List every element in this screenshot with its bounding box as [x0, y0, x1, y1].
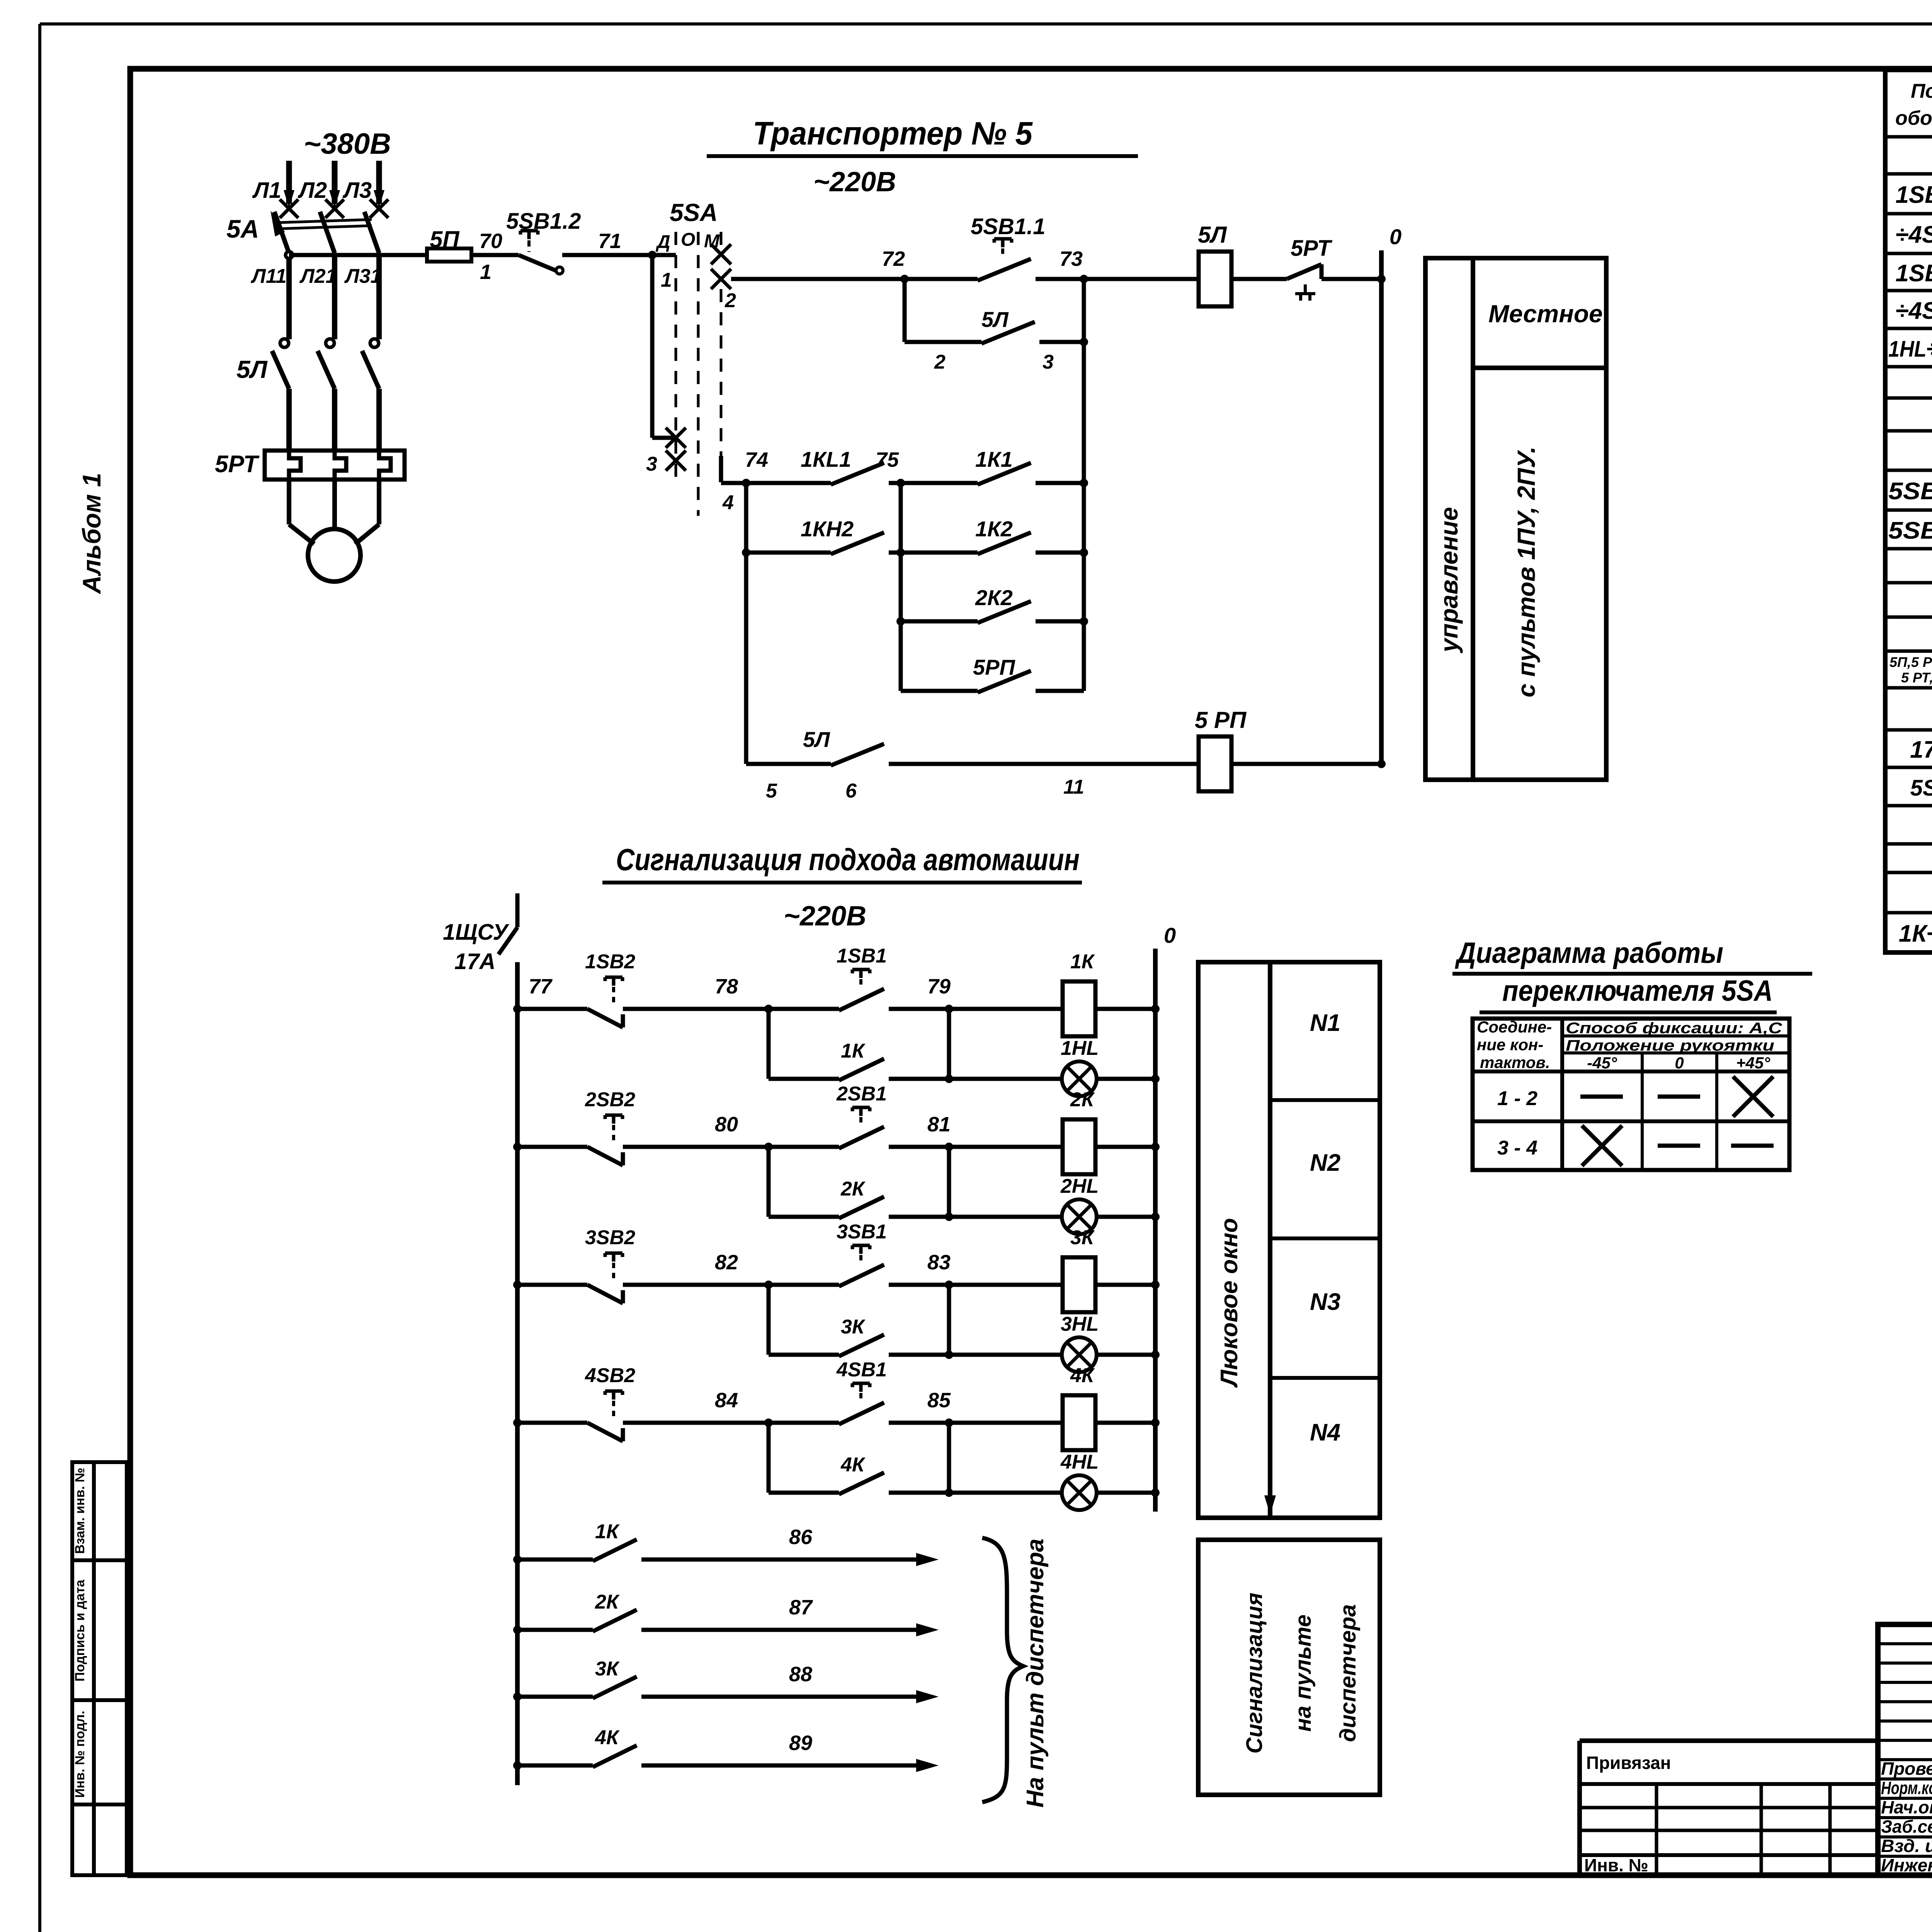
breaker 5A fixed contact X phase 2	[325, 199, 344, 218]
svg-text:Л3: Л3	[342, 178, 372, 203]
control-mode box divider horizontal	[1473, 366, 1606, 370]
svg-text:2К: 2К	[1070, 1088, 1095, 1111]
control-mode box divider vertical	[1471, 258, 1475, 780]
branch vertical to lamp 3	[947, 1285, 951, 1355]
section title underline	[602, 881, 1082, 884]
wire 75 to 1К1	[901, 481, 978, 485]
junction bus rung 2	[513, 1143, 522, 1151]
5SA position dashed lines Д О М	[675, 232, 677, 479]
wire 3SB2 to node 82	[623, 1283, 769, 1287]
branch vertical node 84	[767, 1423, 771, 1493]
wire contact 2К to lamp branch	[889, 1215, 949, 1219]
svg-text:Нач.отд.: Нач.отд.	[1881, 1797, 1932, 1817]
title block row line	[1878, 1719, 1932, 1723]
right collector vertical 73	[1082, 279, 1086, 691]
5SA М line top segment	[720, 232, 723, 246]
feeder stub from 1ЩСУ	[515, 893, 520, 927]
wire output 86 start	[517, 1558, 593, 1562]
wire node71 to Д line	[652, 253, 676, 257]
svg-text:5SB1.2: 5SB1.2	[1888, 517, 1932, 544]
junction to lamp branch 1	[945, 1005, 953, 1013]
motor circle M	[308, 529, 361, 582]
svg-text:4SB1: 4SB1	[836, 1359, 887, 1381]
svg-text:79: 79	[927, 975, 951, 998]
wire node to 1SB1	[769, 1007, 839, 1011]
contactor 5Л fixed contact phase 2	[326, 339, 334, 347]
table row line	[1885, 911, 1932, 915]
wire 2SB2 to node 80	[623, 1145, 769, 1149]
5SA М-line solid tail to rung	[719, 456, 723, 482]
5SA diagram table grid	[1473, 1019, 1789, 1170]
svg-text:0: 0	[1675, 1054, 1684, 1072]
left vertical 74 down	[744, 483, 748, 764]
svg-text:3SB1: 3SB1	[837, 1221, 887, 1243]
table row line	[1885, 172, 1932, 176]
wire output 86	[641, 1558, 923, 1562]
node 84 junction	[764, 1418, 773, 1427]
neutral bus 0 vertical	[1379, 250, 1384, 764]
middle vertical 75 down	[899, 483, 903, 691]
5SA contact X (3) upper	[666, 428, 686, 448]
wire coil 5РП to bus 0	[1231, 762, 1381, 766]
5SA feed to contact 3	[652, 436, 676, 440]
svg-text:диспетчера: диспетчера	[1335, 1604, 1361, 1742]
contactor 5Л blade phase 3	[362, 351, 379, 389]
svg-text:5 РТ,5Л: 5 РТ,5Л	[1901, 670, 1932, 685]
junction bus rung 3	[513, 1281, 522, 1289]
svg-text:N3: N3	[1310, 1289, 1340, 1315]
node 72 junction	[900, 275, 909, 283]
phase feeder L1 vertical	[286, 161, 292, 204]
svg-text:4К: 4К	[840, 1454, 866, 1476]
junction Row B right	[1080, 548, 1088, 557]
wire 1КЛ1 to node 75	[889, 481, 901, 485]
table row line	[1885, 327, 1932, 330]
wire 5РТ to neutral bus 0	[1321, 277, 1381, 281]
svg-text:1НL÷4НL: 1НL÷4НL	[1888, 337, 1932, 362]
breaker 5A fixed contact X phase 3	[370, 199, 388, 218]
node Л11 junction circle	[286, 252, 293, 259]
wire node to 3SB1	[769, 1283, 839, 1287]
phase L3 arrow tip	[374, 190, 384, 208]
junction Row B mid	[896, 548, 905, 557]
svg-text:с пультов 1ПУ, 2ПУ.: с пультов 1ПУ, 2ПУ.	[1512, 446, 1540, 697]
branch vertical node 80	[767, 1147, 771, 1217]
svg-text:Местное: Местное	[1488, 300, 1603, 328]
title block row line	[1878, 1758, 1932, 1761]
wire Л11 to fuse 5П	[289, 253, 427, 257]
stop button 4SB2 (NC)	[587, 1423, 623, 1441]
svg-text:Положение рукоятки: Положение рукоятки	[1566, 1037, 1774, 1054]
node 71 junction	[648, 251, 656, 259]
wire to 1КН2	[746, 551, 831, 555]
sheet outer border left	[38, 24, 41, 1932]
title block row line	[1878, 1777, 1932, 1781]
wire output 88 start	[517, 1695, 593, 1699]
title block row line	[1878, 1739, 1932, 1742]
bus junction rung 1	[1151, 1005, 1160, 1013]
arrow into lower box	[1264, 1495, 1276, 1515]
svg-text:84: 84	[715, 1389, 738, 1412]
node 75 junction	[896, 479, 905, 487]
start button 4SB1 (NO)	[839, 1403, 884, 1424]
bus junction lamp 4	[1151, 1488, 1160, 1497]
breaker 5A linkage bar (double line)	[279, 219, 372, 223]
svg-text:ние кон-: ние кон-	[1477, 1036, 1543, 1054]
wire rung 2 start	[517, 1145, 587, 1149]
svg-text:5SB1.1: 5SB1.1	[971, 214, 1045, 239]
svg-text:÷4SB2: ÷4SB2	[1895, 298, 1932, 324]
breaker 5A blade phase 3	[364, 212, 379, 253]
junction bus rung 4	[513, 1418, 522, 1427]
node 82 junction	[764, 1281, 773, 1289]
svg-text:N2: N2	[1310, 1150, 1340, 1176]
phase feeder L3 vertical	[376, 161, 382, 204]
svg-text:1КL1: 1КL1	[801, 447, 851, 471]
start button 2SB1 (NO)	[839, 1127, 884, 1148]
svg-text:5Л: 5Л	[981, 307, 1009, 332]
signal lamp 2НЛ	[1062, 1199, 1097, 1234]
svg-text:1К: 1К	[595, 1520, 620, 1543]
title block row line	[1878, 1797, 1932, 1800]
svg-text:85: 85	[927, 1389, 951, 1412]
wire contact 1К to lamp branch	[889, 1077, 949, 1081]
wire output 88	[641, 1695, 923, 1699]
svg-text:Л11: Л11	[250, 265, 287, 287]
wire coil 4К to bus 0	[1095, 1421, 1155, 1425]
svg-text:1: 1	[661, 269, 672, 291]
bus junction lamp 1	[1151, 1075, 1160, 1083]
svg-text:3К: 3К	[841, 1316, 866, 1338]
start button 5SB1.1 (NO with button head)	[978, 259, 1031, 281]
table row line	[1885, 686, 1932, 690]
branch vertical to lamp 4	[947, 1423, 951, 1493]
signal lamp 1НЛ	[1062, 1061, 1097, 1096]
wire 1SB1 to coil 1К	[889, 1007, 1063, 1011]
table row line	[1885, 871, 1932, 874]
title block row line	[1878, 1681, 1932, 1684]
svg-text:2SB2: 2SB2	[585, 1088, 635, 1111]
window cell divider 2	[1270, 1236, 1380, 1240]
bus junction output 88	[513, 1692, 522, 1701]
wire coil 2К to bus 0	[1095, 1145, 1155, 1149]
wire to lamp 4НЛ	[949, 1491, 1062, 1495]
wire contact 3К to lamp branch	[889, 1353, 949, 1357]
contactor 5Л blade phase 1	[272, 351, 289, 389]
phase L1 arrow tip	[284, 190, 294, 208]
svg-text:Л31: Л31	[344, 265, 382, 287]
table row line	[1885, 842, 1932, 846]
svg-text:82: 82	[715, 1251, 738, 1274]
title block row line	[1878, 1662, 1932, 1665]
wire 2К2 to collector	[1036, 619, 1084, 624]
svg-text:2: 2	[934, 351, 946, 373]
table row line	[1885, 581, 1932, 585]
branch vertical node 82	[767, 1285, 771, 1355]
junction to lamp branch 3	[945, 1281, 953, 1289]
svg-text:Сигнализация: Сигнализация	[1242, 1593, 1267, 1754]
svg-text:÷4SB1: ÷4SB1	[1895, 221, 1932, 248]
svg-text:Поз,: Поз,	[1911, 80, 1932, 102]
svg-text:1НL: 1НL	[1061, 1037, 1099, 1060]
long wire 11 to coil 5РП	[889, 762, 1199, 766]
coil 5Л (contactor coil)	[1199, 252, 1231, 306]
bus node bottom	[1377, 760, 1386, 768]
contactor 5Л fixed contact phase 3	[370, 339, 379, 347]
junction lamp branch 1	[945, 1075, 953, 1083]
svg-text:87: 87	[789, 1596, 813, 1619]
stop button 3SB2 (NC)	[587, 1285, 623, 1303]
wire lamp 4НЛ to bus 0	[1097, 1491, 1155, 1495]
junction Row C mid	[896, 617, 905, 626]
svg-text:11: 11	[1063, 776, 1084, 798]
svg-text:74: 74	[745, 448, 768, 471]
dash 3-4 0	[1658, 1144, 1700, 1148]
arrow to dispatcher 86	[916, 1553, 939, 1566]
table row line	[1885, 547, 1932, 551]
relay coil 4К	[1063, 1395, 1095, 1450]
svg-text:N1: N1	[1310, 1010, 1340, 1036]
wire coil 1К to bus 0	[1095, 1007, 1155, 1011]
svg-text:77: 77	[529, 975, 553, 998]
node 73 junction	[1080, 275, 1088, 283]
svg-text:Диаграмма работы: Диаграмма работы	[1455, 937, 1723, 969]
table row line	[1885, 289, 1932, 293]
wire button to node 73	[1036, 277, 1084, 281]
wire coil 5Л to 5РТ contact	[1231, 277, 1287, 281]
wire output 89	[641, 1764, 923, 1768]
svg-text:72: 72	[882, 247, 905, 270]
dash 3-4 +45	[1731, 1144, 1774, 1148]
svg-text:~220В: ~220В	[784, 901, 866, 932]
svg-text:3НL: 3НL	[1061, 1313, 1099, 1335]
bus junction output 87	[513, 1626, 522, 1634]
svg-text:88: 88	[789, 1663, 812, 1686]
svg-text:Д: Д	[655, 232, 670, 252]
svg-text:83: 83	[927, 1251, 951, 1274]
svg-text:3К: 3К	[595, 1658, 620, 1680]
stop button 2SB2 (NC)	[587, 1147, 623, 1165]
wire to 5РП contact	[901, 689, 978, 693]
phase L2 arrow tip	[329, 190, 340, 208]
svg-text:1SB1: 1SB1	[837, 945, 887, 967]
title block row line	[1878, 1700, 1932, 1703]
phase feeder L2 vertical	[332, 161, 338, 204]
svg-text:71: 71	[598, 230, 621, 253]
svg-text:1ЩСУ: 1ЩСУ	[443, 920, 509, 945]
table row line	[1885, 396, 1932, 400]
control-mode box outline	[1425, 258, 1606, 780]
svg-text:Инженер.: Инженер.	[1881, 1855, 1932, 1875]
svg-text:2К2: 2К2	[975, 585, 1013, 610]
wire node 72 to button 5SB1.1	[905, 277, 978, 281]
svg-text:6: 6	[845, 780, 857, 802]
svg-text:Люковое окно: Люковое окно	[1216, 1218, 1243, 1388]
phase wire segment below breaker 3	[376, 255, 382, 339]
wire node to 4SB1	[769, 1421, 839, 1425]
table row line	[1885, 469, 1932, 472]
table row line	[1885, 650, 1932, 653]
svg-text:5SB1.1: 5SB1.1	[1888, 478, 1932, 505]
svg-text:73: 73	[1060, 247, 1083, 270]
svg-text:2НL: 2НL	[1060, 1175, 1099, 1197]
signal lamp 4НЛ	[1062, 1475, 1097, 1510]
svg-text:1К: 1К	[1070, 951, 1095, 973]
5SA contact X (3) lower	[666, 451, 686, 471]
svg-text:1SB2: 1SB2	[585, 951, 635, 973]
svg-text:Транспортер № 5: Транспортер № 5	[753, 115, 1033, 151]
wire 74 to 1КЛ1	[746, 481, 831, 485]
svg-text:5РТ: 5РТ	[1291, 236, 1333, 261]
svg-text:81: 81	[927, 1113, 951, 1136]
phase wire segment below breaker 2	[332, 255, 337, 339]
svg-text:70: 70	[479, 230, 502, 253]
parts list table outer	[1885, 70, 1932, 952]
wire to 2К2	[901, 619, 978, 624]
svg-text:5РТ: 5РТ	[215, 451, 260, 478]
window cell divider 1	[1270, 1098, 1380, 1102]
svg-text:1К÷4к: 1К÷4к	[1899, 920, 1932, 947]
node 74 junction	[742, 479, 750, 487]
stop button 1SB2 (NC)	[587, 1009, 623, 1027]
table row line	[1885, 728, 1932, 732]
svg-text:Альбом 1: Альбом 1	[77, 473, 106, 595]
wire output 87	[641, 1628, 923, 1632]
svg-text:переключателя 5SA: переключателя 5SA	[1502, 975, 1773, 1007]
svg-text:1SB1÷: 1SB1÷	[1895, 182, 1932, 208]
wire rung 4 start	[517, 1421, 587, 1425]
wire node to 2SB1	[769, 1145, 839, 1149]
signal lamp 3НЛ	[1062, 1337, 1097, 1372]
arrow to dispatcher 88	[916, 1690, 939, 1703]
wire rung 1 start	[517, 1007, 587, 1011]
svg-text:4: 4	[722, 492, 734, 514]
junction to lamp branch 2	[945, 1143, 953, 1151]
svg-text:17А: 17А	[454, 949, 495, 974]
bus junction lamp 2	[1151, 1213, 1160, 1221]
bus junction rung 3	[1151, 1281, 1160, 1289]
svg-text:~380В: ~380В	[304, 128, 391, 160]
wire 5SA(4) to node 74	[721, 481, 746, 485]
svg-text:обознач.: обознач.	[1895, 107, 1932, 129]
svg-text:1КН2: 1КН2	[801, 517, 854, 541]
svg-text:Инв. №: Инв. №	[1584, 1855, 1648, 1875]
svg-text:2: 2	[724, 289, 736, 312]
svg-text:5А: 5А	[226, 214, 259, 243]
wire lamp 1НЛ to bus 0	[1097, 1077, 1155, 1081]
svg-text:Л2: Л2	[298, 178, 327, 203]
start button 1SB1 (NO)	[839, 989, 884, 1010]
wire 3SB1 to coil 3К	[889, 1283, 1063, 1287]
table row line	[1885, 429, 1932, 433]
svg-text:5Л: 5Л	[236, 355, 268, 383]
svg-text:5Л: 5Л	[1198, 222, 1227, 248]
thermal NC contact 5РТ	[1287, 264, 1321, 279]
bus junction rung 4	[1151, 1418, 1160, 1427]
branch vertical to lamp 1	[947, 1009, 951, 1079]
svg-text:4НL: 4НL	[1060, 1451, 1099, 1473]
wire 1К1 to collector	[1036, 481, 1084, 485]
svg-text:2К: 2К	[840, 1178, 866, 1200]
node 78 junction	[764, 1005, 773, 1013]
phase wire segment below breaker 1	[286, 257, 292, 339]
wire 5SA to node 72	[731, 277, 905, 281]
svg-text:Взд. инж.: Взд. инж.	[1881, 1836, 1932, 1856]
svg-text:3: 3	[646, 453, 657, 475]
svg-text:На пульт диспетчера: На пульт диспетчера	[1022, 1539, 1049, 1808]
svg-text:1К: 1К	[841, 1040, 866, 1062]
svg-text:Л21: Л21	[299, 265, 337, 287]
svg-text:5РП: 5РП	[973, 655, 1015, 679]
diagram col divider	[1560, 1019, 1564, 1170]
svg-text:75: 75	[876, 448, 899, 471]
start button 3SB1 (NO)	[839, 1265, 884, 1286]
annex grid (Привязан)	[1580, 1741, 1878, 1875]
svg-text:на пульте: на пульте	[1291, 1614, 1316, 1731]
wire coil 3К to bus 0	[1095, 1283, 1155, 1287]
wire output 89 start	[517, 1764, 593, 1768]
svg-text:Взам. инв. №: Взам. инв. №	[73, 1468, 87, 1554]
table row line	[1885, 135, 1932, 139]
table row line	[1885, 766, 1932, 769]
svg-text:2SB1: 2SB1	[836, 1083, 887, 1105]
contactor 5Л blade phase 2	[318, 351, 335, 389]
wire 5РП to collector	[1036, 689, 1084, 693]
svg-text:5SB1.2: 5SB1.2	[506, 209, 581, 234]
svg-text:78: 78	[715, 975, 738, 998]
relay coil 1К	[1063, 981, 1095, 1036]
svg-text:2К: 2К	[595, 1591, 620, 1613]
svg-text:1 - 2: 1 - 2	[1497, 1087, 1537, 1110]
svg-text:+45°: +45°	[1736, 1054, 1770, 1072]
svg-text:-45°: -45°	[1587, 1054, 1617, 1072]
svg-text:~220В: ~220В	[813, 167, 896, 197]
curly brace for dispatcher outputs	[982, 1538, 1023, 1802]
title block row line	[1878, 1855, 1932, 1858]
dash 1-2 -45	[1580, 1095, 1623, 1099]
svg-text:Соедине-: Соедине-	[1477, 1018, 1552, 1036]
svg-text:0: 0	[1164, 923, 1176, 947]
title underline	[707, 154, 1138, 158]
title block outer	[1878, 1624, 1932, 1875]
svg-text:89: 89	[789, 1731, 812, 1755]
table row line	[1885, 509, 1932, 512]
bus node at top rung	[1377, 275, 1386, 283]
coil 5РП (relay)	[1199, 736, 1231, 791]
sheet outer border top	[40, 22, 1932, 26]
junction lamp branch 2	[945, 1213, 953, 1221]
wire rung 3 start	[517, 1283, 587, 1287]
window box Люковое окно	[1198, 962, 1380, 1518]
fuse 5П	[427, 248, 471, 262]
svg-text:Провер.: Провер.	[1881, 1759, 1932, 1779]
svg-text:5SA: 5SA	[670, 199, 718, 226]
5SA feed vertical from node 71	[650, 255, 655, 438]
bus junction output 86	[513, 1555, 522, 1564]
wire to aux contact 5Л	[905, 340, 981, 344]
svg-text:Привязан: Привязан	[1586, 1753, 1671, 1773]
svg-text:N4: N4	[1310, 1419, 1340, 1446]
svg-text:Подпись и дата: Подпись и дата	[73, 1579, 87, 1682]
svg-text:тактов.: тактов.	[1480, 1053, 1550, 1071]
junction lamp branch 3	[945, 1350, 953, 1359]
svg-text:5SA: 5SA	[1910, 776, 1932, 801]
svg-text:4SB2: 4SB2	[585, 1364, 635, 1387]
svg-text:Сигнализация подхода автомаш: Сигнализация подхода автомашин	[616, 842, 1080, 877]
junction Row A	[1080, 479, 1088, 487]
bus junction rung 2	[1151, 1143, 1160, 1151]
feeder disconnect slash 17А	[498, 927, 517, 954]
